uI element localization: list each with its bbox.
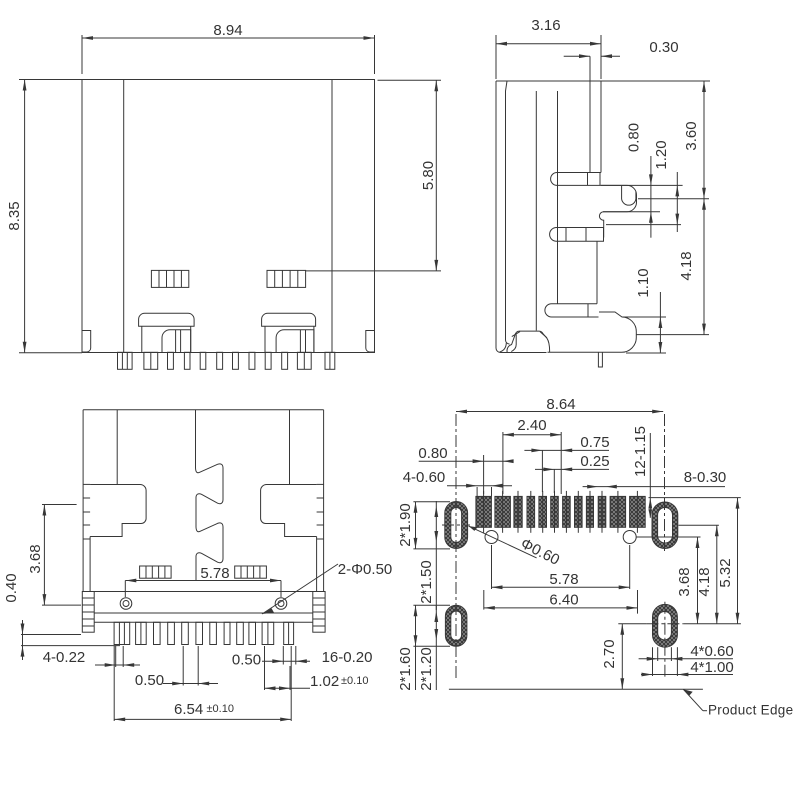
svg-text:5.78: 5.78 [200, 565, 229, 582]
svg-text:6.54: 6.54 [174, 701, 203, 718]
svg-text:4-0.60: 4-0.60 [403, 469, 446, 486]
svg-text:4.18: 4.18 [678, 251, 695, 280]
svg-text:0.30: 0.30 [649, 39, 678, 56]
svg-text:Product Edge: Product Edge [708, 703, 793, 718]
svg-text:2*1.20: 2*1.20 [418, 647, 435, 690]
svg-text:1.02: 1.02 [310, 673, 339, 690]
svg-text:2*1.90: 2*1.90 [397, 503, 414, 546]
svg-text:0.80: 0.80 [418, 445, 447, 462]
svg-text:1.10: 1.10 [635, 268, 652, 297]
svg-text:0.75: 0.75 [580, 434, 609, 451]
svg-text:5.32: 5.32 [717, 558, 734, 587]
svg-text:0.50: 0.50 [232, 652, 261, 669]
svg-text:2*1.50: 2*1.50 [418, 560, 435, 603]
svg-text:8-0.30: 8-0.30 [684, 469, 727, 486]
svg-text:2-Φ0.50: 2-Φ0.50 [338, 561, 393, 578]
svg-text:8.64: 8.64 [546, 396, 575, 413]
svg-text:8.35: 8.35 [6, 201, 23, 230]
svg-text:8.94: 8.94 [213, 22, 242, 39]
svg-text:6.40: 6.40 [549, 592, 578, 609]
svg-text:0.50: 0.50 [135, 672, 164, 689]
svg-text:1.20: 1.20 [653, 140, 670, 169]
svg-text:3.68: 3.68 [676, 567, 693, 596]
svg-text:12-1.15: 12-1.15 [632, 426, 649, 477]
svg-text:4-0.22: 4-0.22 [43, 649, 86, 666]
svg-text:±0.10: ±0.10 [207, 703, 234, 715]
svg-text:0.40: 0.40 [3, 573, 20, 602]
svg-text:3.60: 3.60 [683, 121, 700, 150]
svg-text:5.80: 5.80 [420, 161, 437, 190]
svg-text:4*0.60: 4*0.60 [690, 643, 733, 660]
svg-text:4*1.00: 4*1.00 [690, 659, 733, 676]
svg-text:2*1.60: 2*1.60 [397, 647, 414, 690]
svg-text:4.18: 4.18 [696, 567, 713, 596]
svg-text:±0.10: ±0.10 [341, 675, 368, 687]
svg-text:2.40: 2.40 [517, 417, 546, 434]
svg-text:2.70: 2.70 [601, 639, 618, 668]
svg-text:0.25: 0.25 [580, 453, 609, 470]
svg-text:5.78: 5.78 [549, 571, 578, 588]
svg-text:3.68: 3.68 [27, 544, 44, 573]
svg-text:0.80: 0.80 [626, 123, 643, 152]
svg-text:3.16: 3.16 [531, 17, 560, 34]
svg-text:16-0.20: 16-0.20 [322, 649, 373, 666]
